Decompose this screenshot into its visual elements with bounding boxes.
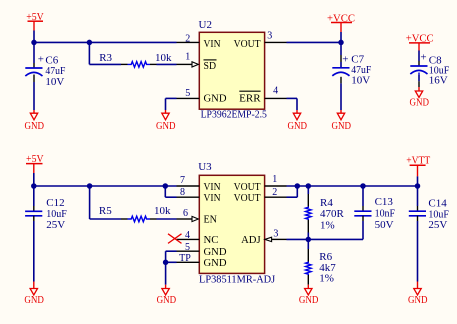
junction	[306, 183, 312, 189]
ground	[332, 110, 352, 132]
svg-text:5: 5	[185, 88, 190, 99]
wire	[296, 185, 298, 197]
svg-text:16V: 16V	[429, 75, 448, 87]
pin 4 ERR	[265, 97, 287, 99]
svg-text:R5: R5	[99, 205, 112, 217]
svg-text:5: 5	[185, 242, 190, 253]
svg-text:R3: R3	[99, 52, 112, 64]
junction	[31, 40, 37, 46]
svg-text:GND: GND	[156, 121, 176, 132]
svg-text:2: 2	[272, 187, 277, 198]
wire	[166, 97, 177, 99]
wire	[34, 185, 177, 187]
wire	[88, 42, 90, 65]
wire	[89, 185, 91, 219]
svg-text:10V: 10V	[45, 76, 64, 88]
svg-text:10nF: 10nF	[375, 208, 396, 220]
svg-text:NC: NC	[204, 234, 219, 246]
ground	[410, 87, 430, 108]
svg-text:+: +	[342, 53, 348, 65]
junction	[338, 40, 344, 46]
power +5V (top)	[26, 11, 44, 31]
pin 2 VIN	[177, 41, 200, 43]
ground	[24, 282, 44, 307]
svg-text:GND: GND	[204, 93, 227, 105]
svg-text:U2: U2	[199, 19, 212, 31]
svg-text:2: 2	[185, 34, 190, 45]
svg-text:25V: 25V	[46, 219, 65, 231]
svg-text:C12: C12	[46, 197, 64, 209]
junction	[295, 183, 301, 189]
junction	[306, 237, 312, 243]
junction	[163, 260, 169, 266]
wire	[287, 41, 342, 43]
svg-text:C13: C13	[375, 196, 394, 208]
pin 5 GND	[177, 250, 200, 252]
svg-text:U3: U3	[198, 161, 212, 173]
resistor R3	[99, 52, 172, 67]
svg-text:1%: 1%	[319, 273, 334, 285]
svg-text:25V: 25V	[428, 219, 447, 231]
junction	[360, 183, 366, 189]
svg-text:GND: GND	[157, 295, 177, 306]
svg-text:7: 7	[180, 175, 185, 186]
svg-text:TP: TP	[179, 253, 191, 264]
wire	[165, 262, 167, 284]
svg-text:1: 1	[185, 52, 190, 63]
svg-text:LP3962EMP-2.5: LP3962EMP-2.5	[201, 108, 268, 120]
pin 2 VOUT	[265, 196, 287, 198]
svg-text:3: 3	[273, 229, 278, 240]
wire	[33, 173, 35, 186]
capacitor C13	[354, 186, 395, 239]
pin 1 VOUT	[265, 185, 287, 187]
svg-text:470R: 470R	[320, 208, 345, 220]
svg-text:GND: GND	[299, 295, 319, 306]
svg-text:10k: 10k	[155, 52, 172, 64]
svg-text:VIN: VIN	[204, 38, 221, 50]
wire	[417, 176, 419, 186]
resistor R6	[306, 239, 337, 284]
svg-text:GND: GND	[332, 121, 352, 132]
ground	[299, 285, 319, 306]
svg-text:EN: EN	[204, 214, 218, 226]
svg-text:8: 8	[180, 187, 185, 198]
svg-text:10k: 10k	[154, 205, 171, 217]
capacitor C7	[332, 42, 371, 110]
resistor R4	[306, 186, 345, 239]
capacitor C8	[410, 52, 449, 88]
wire	[165, 251, 167, 262]
wire	[157, 63, 177, 65]
pin TP GND	[177, 261, 200, 263]
wire	[287, 97, 298, 99]
wire	[89, 63, 121, 65]
pin 4 NC	[177, 238, 200, 240]
ground	[408, 282, 428, 307]
svg-text:GND: GND	[204, 257, 227, 269]
wire	[287, 196, 298, 198]
wire	[165, 196, 176, 198]
svg-text:SD: SD	[204, 60, 217, 72]
pin 8 VIN	[177, 196, 200, 198]
svg-text:GND: GND	[408, 295, 428, 306]
wire	[33, 31, 35, 43]
wire	[165, 98, 167, 110]
wire	[296, 98, 298, 110]
svg-text:VOUT: VOUT	[234, 192, 261, 204]
ground	[25, 110, 45, 132]
junction	[163, 183, 169, 189]
svg-text:+VTT: +VTT	[406, 154, 430, 166]
wire	[287, 185, 418, 187]
svg-text:LP38511MR-ADJ: LP38511MR-ADJ	[199, 273, 276, 285]
wire	[287, 238, 364, 240]
pin 1 SD	[177, 63, 193, 65]
pin 6 EN	[177, 218, 193, 220]
pin 5 GND	[177, 97, 200, 99]
svg-text:ADJ: ADJ	[241, 234, 261, 246]
ground	[288, 110, 308, 132]
ground	[157, 285, 177, 306]
wire	[34, 41, 177, 43]
svg-text:4: 4	[273, 86, 278, 97]
pin 3 ADJ	[272, 238, 287, 240]
pin 7 VIN	[177, 185, 200, 187]
ground	[156, 110, 176, 132]
power +VTT	[406, 154, 430, 176]
pin 3 VOUT	[265, 41, 287, 43]
svg-text:VIN: VIN	[204, 192, 221, 204]
junction	[87, 183, 93, 189]
capacitor C12	[25, 186, 67, 282]
svg-text:6: 6	[183, 208, 188, 219]
svg-text:GND: GND	[410, 97, 430, 108]
svg-text:R4: R4	[320, 197, 333, 209]
svg-text:GND: GND	[288, 121, 308, 132]
svg-text:1%: 1%	[320, 219, 335, 231]
capacitor C6	[25, 42, 65, 110]
capacitor C14	[409, 186, 449, 282]
wire	[90, 218, 121, 220]
svg-text:4: 4	[185, 230, 190, 241]
junction	[31, 183, 37, 189]
svg-text:ERR: ERR	[239, 93, 261, 105]
power +5V (bottom)	[26, 153, 44, 173]
wire	[164, 186, 166, 197]
power +VCC (C8)	[406, 33, 434, 51]
wire	[157, 218, 177, 220]
svg-text:GND: GND	[25, 121, 45, 132]
power +VCC	[327, 12, 355, 32]
svg-text:VOUT: VOUT	[234, 38, 261, 50]
wire	[418, 51, 420, 62]
regulator U3	[168, 161, 287, 285]
svg-text:1: 1	[272, 174, 277, 185]
no-connect X	[168, 234, 182, 244]
svg-text:+: +	[420, 52, 426, 64]
svg-text:10V: 10V	[351, 74, 370, 86]
wire	[166, 250, 177, 252]
junction	[87, 40, 93, 46]
resistor R5	[99, 205, 171, 222]
svg-text:3: 3	[267, 31, 272, 42]
wire	[340, 32, 342, 42]
svg-text:+: +	[38, 54, 44, 66]
svg-text:50V: 50V	[375, 219, 394, 231]
regulator U2	[177, 19, 287, 120]
svg-text:GND: GND	[24, 295, 44, 306]
wire	[166, 261, 177, 263]
junction	[415, 183, 421, 189]
